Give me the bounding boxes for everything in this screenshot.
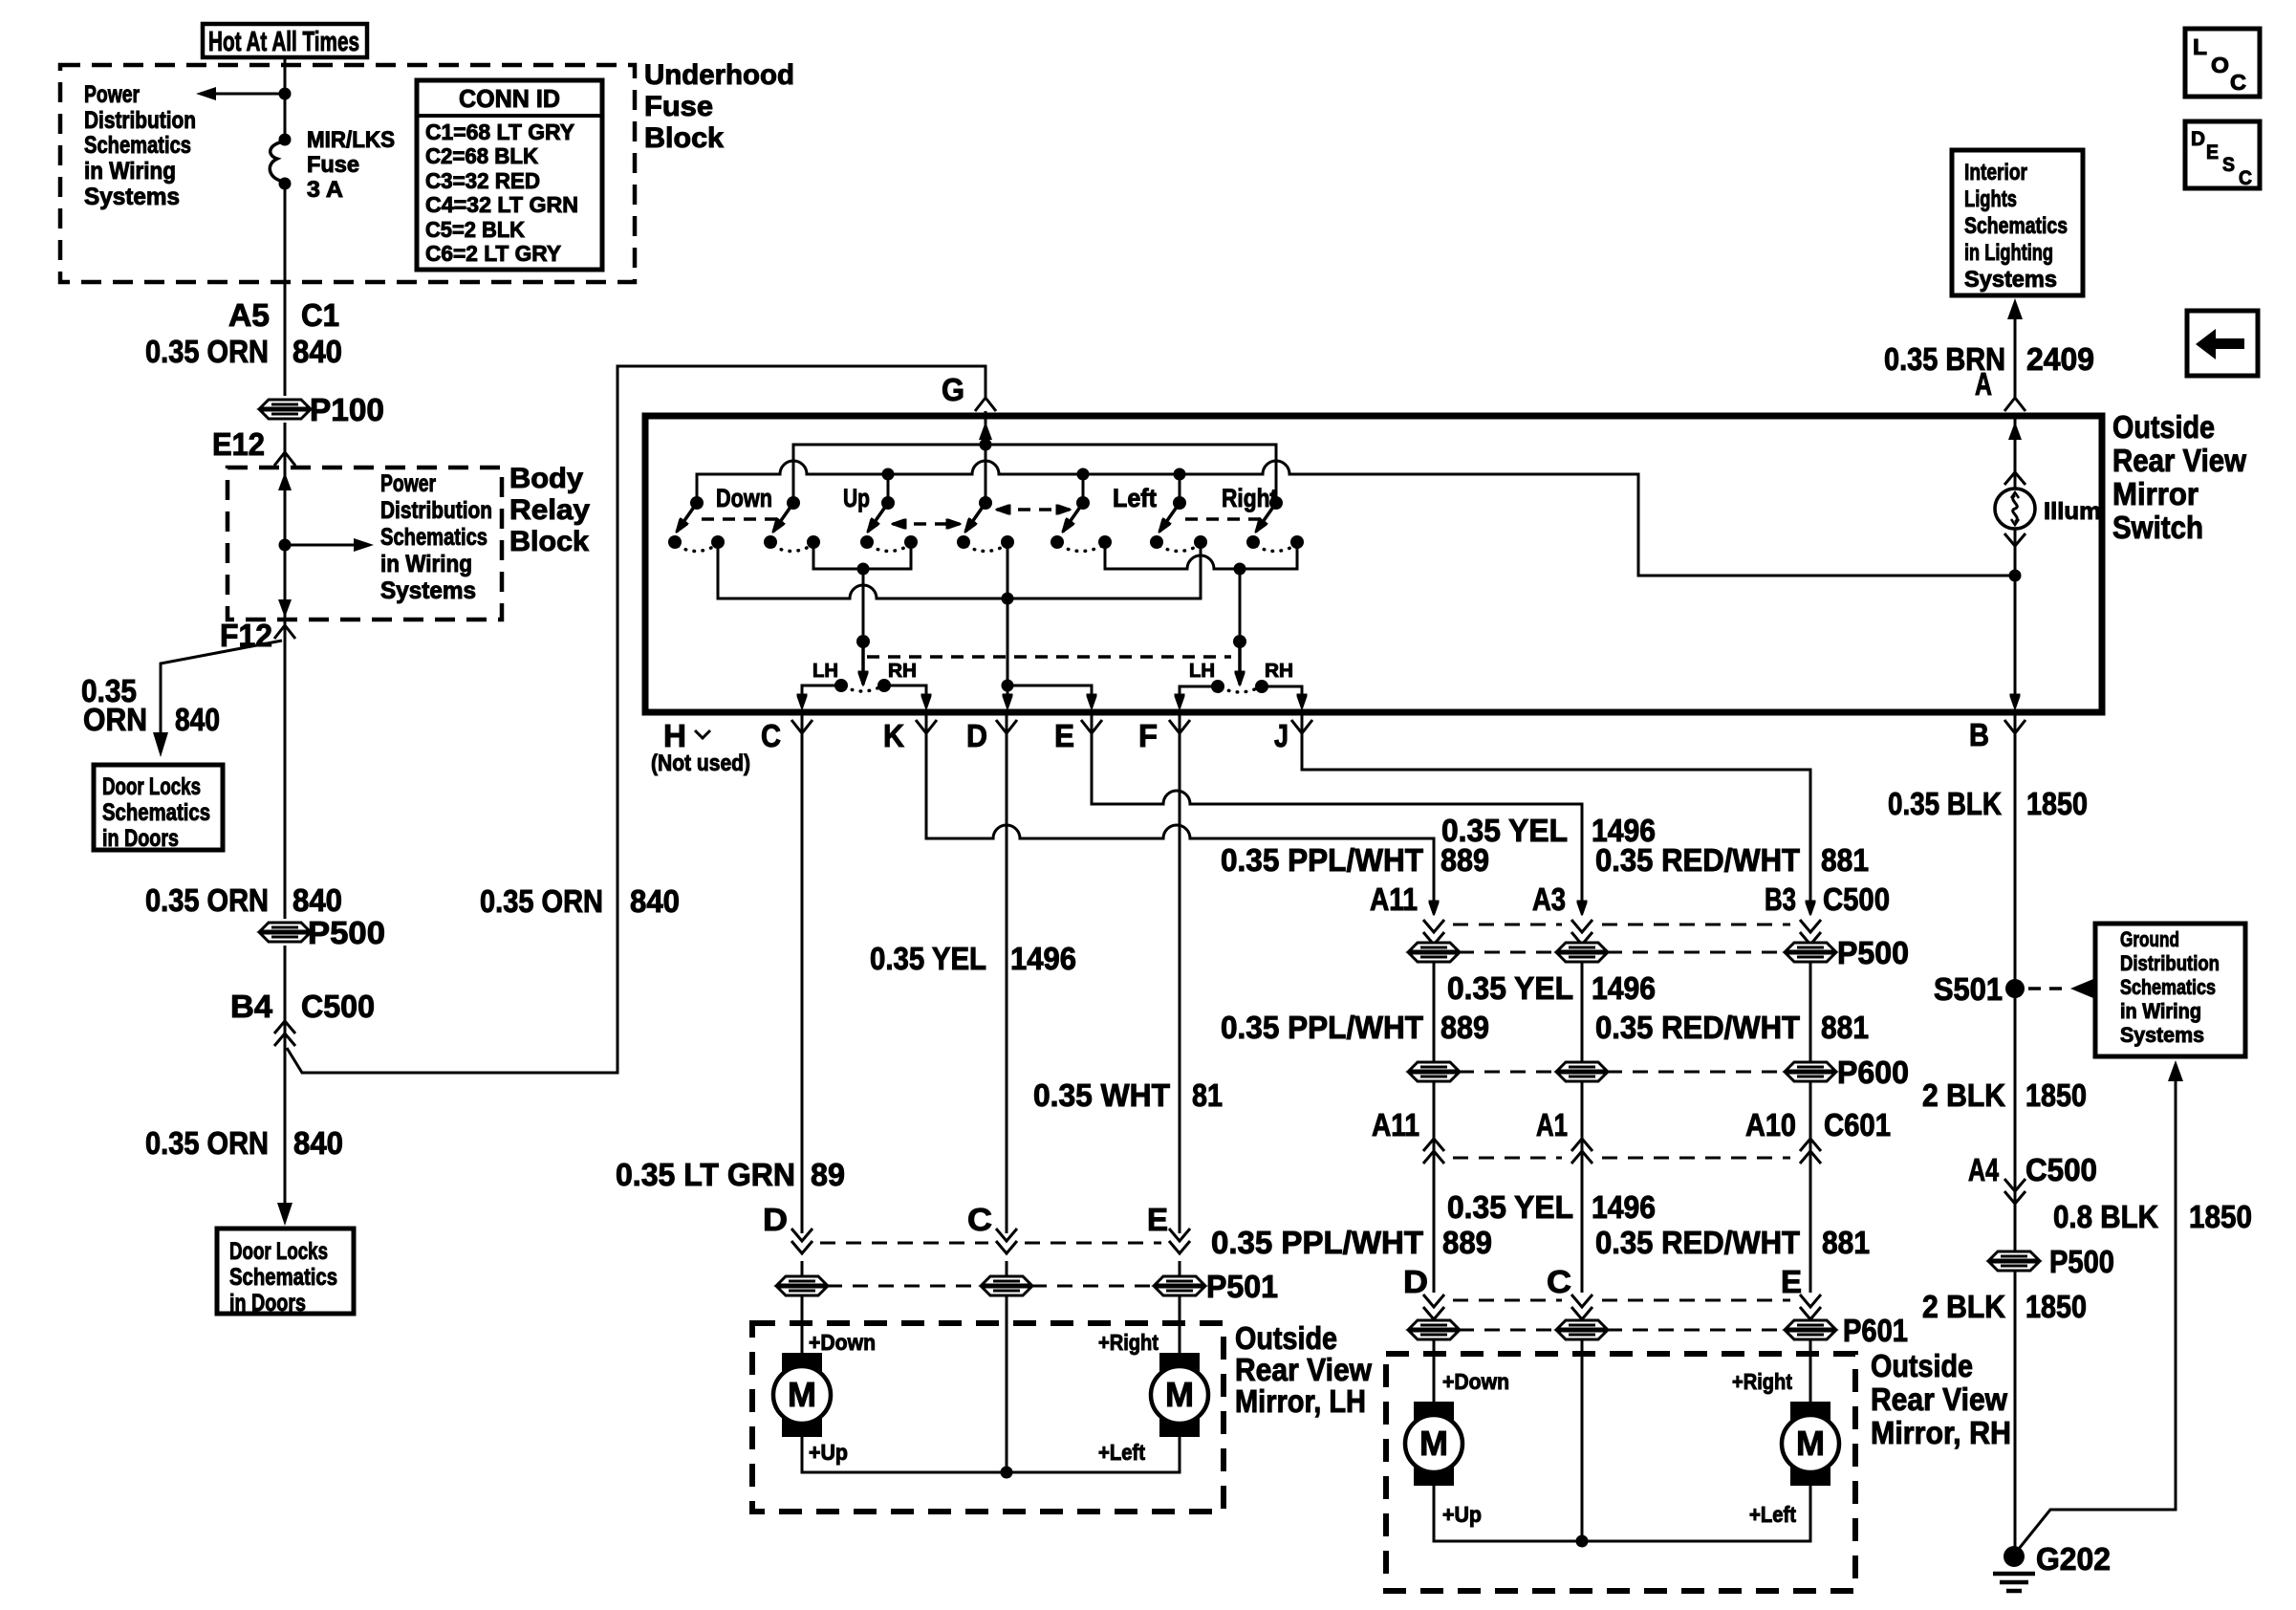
Body Relay Block (dashed enclosure) [227,468,502,620]
wire from pin J to B3 (0.35 RED/WHT 881) [1302,712,1810,914]
svg-text:LH: LH [1189,661,1215,682]
wire: down to pin B [2014,576,2017,707]
wire: feed bus 1 inside switch [793,445,1276,498]
node on bus 3 [857,563,870,576]
svg-text:Schematics: Schematics [84,132,191,159]
node Hot At All Times (battery feed box) [203,24,367,57]
mechanical link Right pair [1185,517,1269,521]
svg-text:in Wiring: in Wiring [84,158,176,185]
svg-text:in Doors: in Doors [229,1290,306,1316]
mechanical link Up/center pair [893,522,960,526]
svg-text:P500: P500 [308,915,385,950]
node on bus 5 [1234,563,1246,576]
svg-text:(Not used): (Not used) [651,751,750,776]
svg-text:A1: A1 [1536,1107,1568,1142]
svg-text:Left: Left [1113,484,1157,512]
svg-text:C500: C500 [1823,881,1890,917]
wire: battery feed down from Hot At All Times [284,57,287,140]
mechanical link Down pair [702,517,786,521]
wire 0.35 BRN 2409 up to Interior Lights [2014,319,2017,398]
wire: G feed down to center rocker pivot [985,416,987,498]
switch rocker pivots [690,496,704,510]
switch contacts [668,535,682,549]
svg-text:Schematics: Schematics [2120,975,2216,999]
svg-text:0.35 YEL: 0.35 YEL [1447,1189,1573,1225]
svg-text:Body: Body [509,463,583,494]
svg-text:1496: 1496 [1592,1189,1656,1225]
svg-text:3 A: 3 A [307,177,343,203]
svg-text:B4: B4 [230,989,273,1024]
wire from pin E to A3 (0.35 YEL 1496) [1092,712,1582,914]
wires into P501 [801,1261,804,1353]
svg-text:C500: C500 [301,989,375,1024]
svg-text:Outside: Outside [1871,1348,1973,1383]
Outside Rear View Mirror LH (dashed box) [752,1323,1224,1512]
wires through P500 [1433,945,1436,1061]
node: illumination return junction [2009,570,2022,582]
svg-text:Systems: Systems [84,184,180,210]
svg-text:881: 881 [1821,842,1869,878]
wires to C601 [1433,1082,1436,1293]
svg-text:81: 81 [1192,1077,1223,1113]
svg-text:Switch: Switch [2112,510,2203,545]
svg-text:RH: RH [888,661,917,682]
svg-text:Relay: Relay [509,494,590,526]
node: reference arrow to Power Distribution Schematics [279,88,292,100]
svg-text:1850: 1850 [2189,1199,2252,1234]
svg-text:Power: Power [380,470,436,497]
connector P500 (pass-through row) [1409,943,1459,962]
svg-text:1850: 1850 [2025,1077,2087,1113]
svg-text:Illum: Illum [2044,498,2101,525]
ground G202 [2004,1546,2025,1567]
Outside Rear View Mirror Switch (component box) [645,416,2102,712]
svg-text:1496: 1496 [1010,941,1076,976]
svg-text:+Down: +Down [1442,1369,1509,1394]
svg-text:Systems: Systems [1964,267,2057,293]
svg-text:Schematics: Schematics [102,799,210,826]
wire 0.35 ORN 840 from B4 C500 up to switch pin G [287,366,986,1073]
wire: selector LH contact to pin C [802,685,841,707]
svg-text:0.35 PPL/WHT: 0.35 PPL/WHT [1221,842,1423,878]
svg-text:0.35 LT GRN: 0.35 LT GRN [616,1157,795,1192]
svg-text:C4=32 LT GRN: C4=32 LT GRN [425,192,578,217]
svg-text:+Up: +Up [1442,1502,1482,1527]
svg-text:P600: P600 [1837,1055,1909,1090]
svg-text:RH: RH [1265,661,1293,682]
svg-text:Mirror, RH: Mirror, RH [1871,1415,2011,1450]
svg-text:840: 840 [292,334,342,369]
svg-text:Fuse: Fuse [307,152,359,178]
lamp Illum [2008,422,2022,440]
svg-text:Block: Block [644,122,724,154]
svg-text:89: 89 [811,1157,845,1192]
svg-text:A10: A10 [1745,1107,1796,1142]
svg-text:Schematics: Schematics [380,524,487,551]
svg-text:+Down: +Down [809,1330,876,1355]
wire from pin K to A11 (0.35 PPL/WHT 889) [926,712,1434,914]
Outside Rear View Mirror RH (dashed box) [1386,1354,1855,1591]
svg-text:D: D [966,718,987,753]
svg-text:0.35 YEL: 0.35 YEL [870,941,986,976]
wire branch F12 to Door Locks [161,641,282,732]
connector P100 [260,400,310,419]
svg-text:F: F [1138,718,1158,753]
svg-text:S501: S501 [1934,971,2003,1007]
svg-text:0.35 RED/WHT: 0.35 RED/WHT [1595,842,1800,878]
svg-text:2 BLK: 2 BLK [1922,1289,2005,1324]
svg-text:C5=2 BLK: C5=2 BLK [425,217,525,242]
svg-text:C601: C601 [1824,1107,1891,1142]
svg-text:A5: A5 [228,297,270,333]
svg-text:Underhood: Underhood [644,59,794,91]
svg-text:P601: P601 [1843,1313,1908,1348]
svg-text:P100: P100 [310,392,384,427]
svg-text:889: 889 [1442,1225,1492,1260]
svg-text:+Right: +Right [1098,1330,1159,1355]
Door Locks Schematics in Doors (reference box) [94,765,223,850]
wire 0.35 YEL 1496 from pin D to LH mirror common [1006,712,1008,1233]
wire: bus 3 (left selector feed) [813,546,911,569]
node: D/E common tap on bus 4 [1002,593,1014,605]
LH/RH selector (right, horizontal axis) [1239,569,1242,635]
mechanical link center/Left pair [997,508,1070,511]
svg-text:0.35 BRN: 0.35 BRN [1884,341,2005,377]
svg-text:E: E [1147,1202,1168,1237]
wire to E12 Body Relay Block [284,423,287,468]
svg-text:1850: 1850 [2025,1289,2087,1324]
svg-text:0.35 RED/WHT: 0.35 RED/WHT [1595,1225,1800,1260]
fuse MIR/LKS 3A [279,134,292,146]
wire: RH motor common [1434,1486,1810,1541]
svg-text:Mirror, LH: Mirror, LH [1235,1383,1366,1419]
svg-text:0.35 RED/WHT: 0.35 RED/WHT [1595,1010,1800,1045]
wire: bus 2 (illumination/return bus) with hops [697,461,2009,576]
svg-text:B: B [1969,717,1989,752]
svg-text:0.35 ORN: 0.35 ORN [145,882,269,918]
wire to B4 C500 [284,946,287,1203]
svg-text:C3=32 RED: C3=32 RED [425,168,540,193]
node: G feed junction on bus 1 [980,439,992,451]
svg-text:C500: C500 [2025,1152,2097,1187]
LH/RH selector (left, vertical axis) [862,569,865,635]
svg-text:G202: G202 [2036,1541,2111,1577]
svg-text:Systems: Systems [2120,1023,2204,1047]
svg-text:+Left: +Left [1749,1502,1796,1527]
wire: selector RH contact to pin J [1262,686,1302,707]
motor M (RH vertical) [1405,1402,1462,1486]
switch rocker arms [677,503,697,532]
svg-text:MIR/LKS: MIR/LKS [307,127,395,153]
svg-text:Power: Power [84,81,140,108]
svg-text:in Wiring: in Wiring [380,551,472,577]
wire 0.35 ORN 840 down to P500 [284,620,287,919]
svg-text:P500: P500 [1837,935,1909,970]
svg-text:J: J [1274,718,1289,753]
wire: selector RH contact to pin K [884,685,926,707]
svg-text:C: C [1547,1264,1571,1299]
wire: common return bus 4 with hop [718,547,1201,598]
svg-text:C1=68 LT GRY: C1=68 LT GRY [425,120,574,144]
motor M (LH horizontal) [1151,1353,1208,1437]
svg-text:A11: A11 [1372,1107,1419,1142]
svg-text:Outside: Outside [2112,409,2215,445]
svg-text:0.35 PPL/WHT: 0.35 PPL/WHT [1211,1225,1423,1260]
wire 0.35 ORN 840 to P100 [284,315,287,396]
svg-text:Fuse: Fuse [644,91,713,122]
CONN ID table [417,80,602,270]
back-arrow legend box [2187,311,2258,376]
svg-text:E12: E12 [212,426,265,462]
svg-text:+Up: +Up [809,1440,848,1465]
wire 0.35 LT GRN 89 from pin C to LH mirror [801,712,804,1233]
svg-text:0.8 BLK: 0.8 BLK [2053,1199,2158,1234]
svg-text:D: D [2191,128,2205,150]
svg-text:Distribution: Distribution [84,107,196,134]
svg-text:C1: C1 [301,297,339,333]
svg-text:B3: B3 [1765,881,1796,917]
svg-text:Lights: Lights [1964,186,2017,212]
wire: bus 5 (right selector feed) with hop [1105,546,1297,569]
svg-text:P500: P500 [2049,1244,2114,1279]
svg-text:1850: 1850 [2026,786,2088,821]
DESC legend box [2185,121,2260,188]
svg-text:Systems: Systems [380,577,476,604]
svg-text:+Right: +Right [1732,1369,1792,1394]
svg-text:H: H [663,718,686,753]
svg-text:881: 881 [1822,1225,1870,1260]
svg-text:C: C [2239,167,2252,189]
wire: fuse output down through fuse block boundary [284,184,287,315]
svg-text:0.35 PPL/WHT: 0.35 PPL/WHT [1221,1010,1423,1045]
node: reference arrow to Power Distribution Schematics [279,539,292,552]
svg-text:CONN ID: CONN ID [459,84,560,113]
svg-text:Block: Block [509,526,589,557]
Underhood Fuse Block (dashed enclosure) [60,65,635,282]
svg-text:C6=2 LT GRY: C6=2 LT GRY [425,241,561,266]
svg-text:840: 840 [175,702,220,737]
wire 0.35 BLK 1850 [2014,712,2017,1551]
svg-text:Rear View: Rear View [1871,1382,2007,1417]
svg-text:Door Locks: Door Locks [102,773,201,800]
wire: center rocker output to pins D and E [1007,546,1009,681]
motor M (RH horizontal) [1782,1402,1839,1486]
connector P601 row [1433,1319,1436,1402]
svg-text:Right: Right [1222,484,1277,512]
svg-text:881: 881 [1821,1010,1869,1045]
svg-text:P501: P501 [1206,1269,1278,1304]
Door Locks Schematics in Doors (reference box) [217,1229,354,1314]
svg-text:Schematics: Schematics [229,1264,337,1291]
svg-text:Rear View: Rear View [1235,1352,1372,1387]
svg-text:Up: Up [843,484,870,512]
wire: LH motor common [802,1437,1180,1472]
svg-text:G: G [942,372,964,407]
svg-text:0.35 ORN: 0.35 ORN [145,334,269,369]
svg-text:0.35 YEL: 0.35 YEL [1447,970,1573,1006]
svg-text:840: 840 [630,883,680,919]
svg-text:K: K [883,718,904,753]
connector P501 row [777,1276,827,1295]
svg-text:Distribution: Distribution [2120,951,2220,975]
svg-text:C: C [967,1202,992,1237]
LOC legend box [2185,29,2260,97]
svg-text:C2=68 BLK: C2=68 BLK [425,143,538,168]
svg-text:C: C [2230,70,2246,95]
svg-text:A11: A11 [1370,881,1418,917]
svg-text:E: E [1054,718,1074,753]
wire inside body relay block [284,468,287,620]
svg-text:D: D [763,1202,788,1237]
svg-text:Rear View: Rear View [2112,443,2246,478]
svg-text:840: 840 [292,882,342,918]
connector P500 [1989,1251,2039,1271]
svg-text:Mirror: Mirror [2112,476,2199,511]
svg-text:ORN: ORN [83,702,147,737]
wire: selector LH contact to pin F [1180,686,1218,707]
svg-text:889: 889 [1440,842,1489,878]
svg-text:2 BLK: 2 BLK [1922,1077,2005,1113]
motor M (LH vertical) [773,1353,831,1437]
wire 0.8 BLK 1850 from ground box to G202 [2168,1060,2183,1081]
svg-text:840: 840 [293,1125,343,1161]
svg-text:L: L [2193,34,2207,59]
connector P600 (pass-through row) [1409,1062,1459,1081]
svg-text:Interior: Interior [1964,160,2027,185]
svg-text:Down: Down [716,484,772,512]
node S501 [2005,979,2025,998]
svg-text:LH: LH [812,661,838,682]
wire 0.35 WHT 81 from pin F to LH mirror [1179,712,1181,1233]
svg-text:A4: A4 [1968,1152,1999,1187]
node: rocker pivot stubs on bus 2 [882,468,895,481]
mechanical link between LH/RH selectors [867,655,1231,659]
contact arcs [678,546,715,552]
svg-text:O: O [2211,53,2229,77]
svg-text:A3: A3 [1532,881,1566,917]
svg-text:0.35 BLK: 0.35 BLK [1888,786,2002,821]
svg-text:Outside: Outside [1235,1320,1337,1356]
Interior Lights Schematics in Lighting Systems (reference box) [1952,150,2083,295]
svg-text:Schematics: Schematics [1964,213,2068,239]
svg-text:Distribution: Distribution [380,497,492,524]
svg-text:2409: 2409 [2026,341,2094,377]
Ground Distribution Schematics in Wiring Systems (reference box) [2095,924,2245,1056]
svg-text:0.35 ORN: 0.35 ORN [145,1125,269,1161]
svg-text:in Wiring: in Wiring [2120,999,2201,1023]
svg-text:Hot At All Times: Hot At All Times [208,27,359,57]
svg-text:in Lighting: in Lighting [1964,240,2053,266]
svg-text:0.35 ORN: 0.35 ORN [480,883,603,919]
svg-text:Door Locks: Door Locks [229,1238,328,1265]
svg-text:Ground: Ground [2120,927,2179,951]
svg-text:S: S [2222,154,2235,176]
svg-text:1496: 1496 [1592,970,1656,1006]
svg-text:in Doors: in Doors [102,825,179,852]
svg-text:E: E [2206,141,2219,163]
connector P500 [260,923,310,942]
svg-text:+Left: +Left [1098,1440,1145,1465]
svg-text:889: 889 [1440,1010,1489,1045]
svg-text:E: E [1781,1264,1802,1299]
svg-text:C: C [761,718,781,753]
svg-text:0.35 WHT: 0.35 WHT [1033,1077,1170,1113]
